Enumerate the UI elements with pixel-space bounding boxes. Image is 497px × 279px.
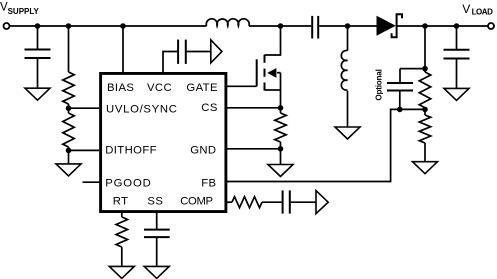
svg-text:SUPPLY: SUPPLY: [8, 7, 40, 16]
svg-text:V: V: [462, 2, 470, 16]
svg-text:CS: CS: [201, 102, 218, 114]
svg-text:UVLO/SYNC: UVLO/SYNC: [106, 103, 178, 115]
svg-text:FB: FB: [201, 178, 216, 190]
svg-text:GATE: GATE: [186, 82, 218, 94]
svg-text:Optional: Optional: [374, 69, 383, 100]
svg-text:COMP: COMP: [180, 196, 212, 208]
svg-text:PGOOD: PGOOD: [105, 178, 152, 190]
svg-text:RT: RT: [113, 196, 129, 208]
svg-text:GND: GND: [190, 145, 216, 157]
svg-text:BIAS: BIAS: [107, 82, 134, 94]
svg-text:VCC: VCC: [147, 82, 172, 94]
svg-text:SS: SS: [147, 196, 163, 208]
svg-text:LOAD: LOAD: [472, 8, 494, 17]
svg-text:DITHOFF: DITHOFF: [105, 145, 157, 157]
